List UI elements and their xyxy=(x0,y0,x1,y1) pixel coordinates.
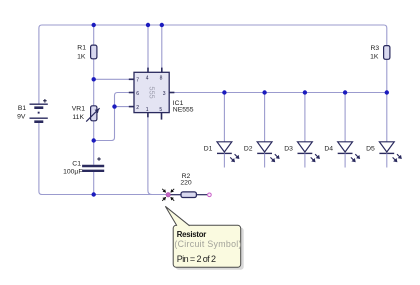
svg-text:D5: D5 xyxy=(366,145,375,152)
svg-text:D1: D1 xyxy=(204,145,213,152)
pin stub 5 xyxy=(161,113,163,120)
resistor R2 (selected) xyxy=(162,173,211,201)
svg-text:11K: 11K xyxy=(72,114,84,121)
svg-text:4: 4 xyxy=(146,75,149,81)
svg-text:9V: 9V xyxy=(17,114,26,121)
node LED D3 xyxy=(303,90,307,94)
LED D4 xyxy=(324,93,358,168)
wire pin2 horizontal xyxy=(115,106,132,108)
wire VR1 bottom to C1 xyxy=(93,121,95,165)
wire VR1 vertical xyxy=(93,79,95,106)
wire pin7 horizontal xyxy=(94,78,131,80)
svg-text:D3: D3 xyxy=(284,145,293,152)
node VR1 C1 xyxy=(92,138,96,142)
svg-text:D4: D4 xyxy=(324,145,333,152)
node rail pin8 xyxy=(160,23,164,27)
svg-text:NE555: NE555 xyxy=(173,107,194,114)
node LED D4 xyxy=(343,90,347,94)
LED D2 xyxy=(244,93,278,168)
node pin2 link xyxy=(112,104,116,108)
tooltip callout xyxy=(165,206,243,269)
node rail pin4 xyxy=(146,23,150,27)
variable resistor VR1 xyxy=(72,105,100,121)
wire R3 bottom xyxy=(386,59,388,92)
svg-text:3: 3 xyxy=(163,91,166,97)
svg-text:D2: D2 xyxy=(244,145,253,152)
wire pin8 from rail xyxy=(161,25,163,69)
svg-text:100µF: 100µF xyxy=(63,169,82,176)
resistor R3 xyxy=(370,45,390,61)
svg-text:2: 2 xyxy=(136,105,139,111)
wire left vertical below battery to bottom rail xyxy=(39,122,167,195)
svg-text:220: 220 xyxy=(180,180,192,187)
op IC1 NE555 body xyxy=(129,68,194,120)
svg-text:Pin = 2 of 2: Pin = 2 of 2 xyxy=(177,254,216,264)
capacitor C1 xyxy=(63,157,104,176)
wire pins 2 and 6 link xyxy=(94,93,131,141)
node rail R1 xyxy=(92,23,96,27)
svg-text:1K: 1K xyxy=(77,53,86,60)
pin stub 8 xyxy=(161,68,163,73)
svg-text:VR1: VR1 xyxy=(72,105,85,112)
svg-text:Resistor: Resistor xyxy=(177,230,206,239)
svg-text:6: 6 xyxy=(136,91,139,97)
LED D1 xyxy=(204,93,238,168)
selection cross on pin 1 xyxy=(162,189,174,201)
wire R1 top from rail xyxy=(93,25,95,45)
wire pin3 LED rail xyxy=(173,92,387,94)
svg-text:B1: B1 xyxy=(18,105,27,112)
svg-text:555: 555 xyxy=(148,86,157,98)
svg-text:1K: 1K xyxy=(370,54,379,61)
resistor R1 xyxy=(77,45,97,61)
node C1 ground rail xyxy=(92,192,96,196)
svg-text:7: 7 xyxy=(136,78,139,84)
battery B1 xyxy=(17,99,48,122)
wire pin1 down to bottom rail xyxy=(148,114,152,195)
svg-text:C1: C1 xyxy=(72,160,81,167)
node R1 pin7 xyxy=(92,77,96,81)
pin stub 4 xyxy=(147,68,149,73)
pin stub 7 xyxy=(129,78,134,80)
svg-text:1: 1 xyxy=(146,107,149,113)
pin stub 6 xyxy=(129,92,134,94)
LED D5 xyxy=(366,93,400,168)
node LED D2 xyxy=(262,90,266,94)
svg-text:R1: R1 xyxy=(77,45,86,52)
wire R1 bottom to junction xyxy=(93,59,95,80)
node LED D5 R3 xyxy=(385,90,389,94)
svg-text:8: 8 xyxy=(160,75,163,81)
wire top rail xyxy=(39,25,387,104)
wire C1 bottom xyxy=(93,172,95,195)
pin 2 hover circle xyxy=(208,193,212,197)
pin stub 2 xyxy=(129,106,134,108)
pin stub 1 xyxy=(147,113,149,118)
wire pin4 from rail xyxy=(147,25,149,69)
svg-text:(Circuit Symbol): (Circuit Symbol) xyxy=(174,239,241,249)
svg-text:5: 5 xyxy=(159,107,162,113)
node LED D1 xyxy=(222,90,226,94)
pin stub 3 xyxy=(169,92,174,94)
svg-text:R3: R3 xyxy=(370,45,379,52)
LED D3 xyxy=(284,93,318,168)
